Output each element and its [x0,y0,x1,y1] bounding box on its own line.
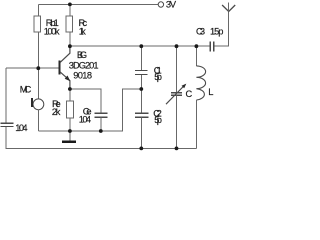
svg-text:3DG201: 3DG201 [69,60,99,70]
svg-text:2k: 2k [52,107,61,117]
svg-text:MIC: MIC [20,85,32,95]
svg-text:5p: 5p [154,72,162,82]
svg-text:5p: 5p [154,115,162,125]
svg-text:C: C [186,89,193,99]
svg-text:9018: 9018 [73,71,92,81]
svg-text:15p: 15p [210,26,223,36]
svg-text:104: 104 [15,123,27,133]
svg-text:C3: C3 [196,26,205,36]
svg-text:100k: 100k [44,27,60,37]
svg-text:3V: 3V [166,0,177,9]
svg-text:BG: BG [77,50,87,60]
svg-text:1k: 1k [79,26,86,36]
svg-text:L: L [208,87,213,97]
svg-text:104: 104 [79,114,91,124]
